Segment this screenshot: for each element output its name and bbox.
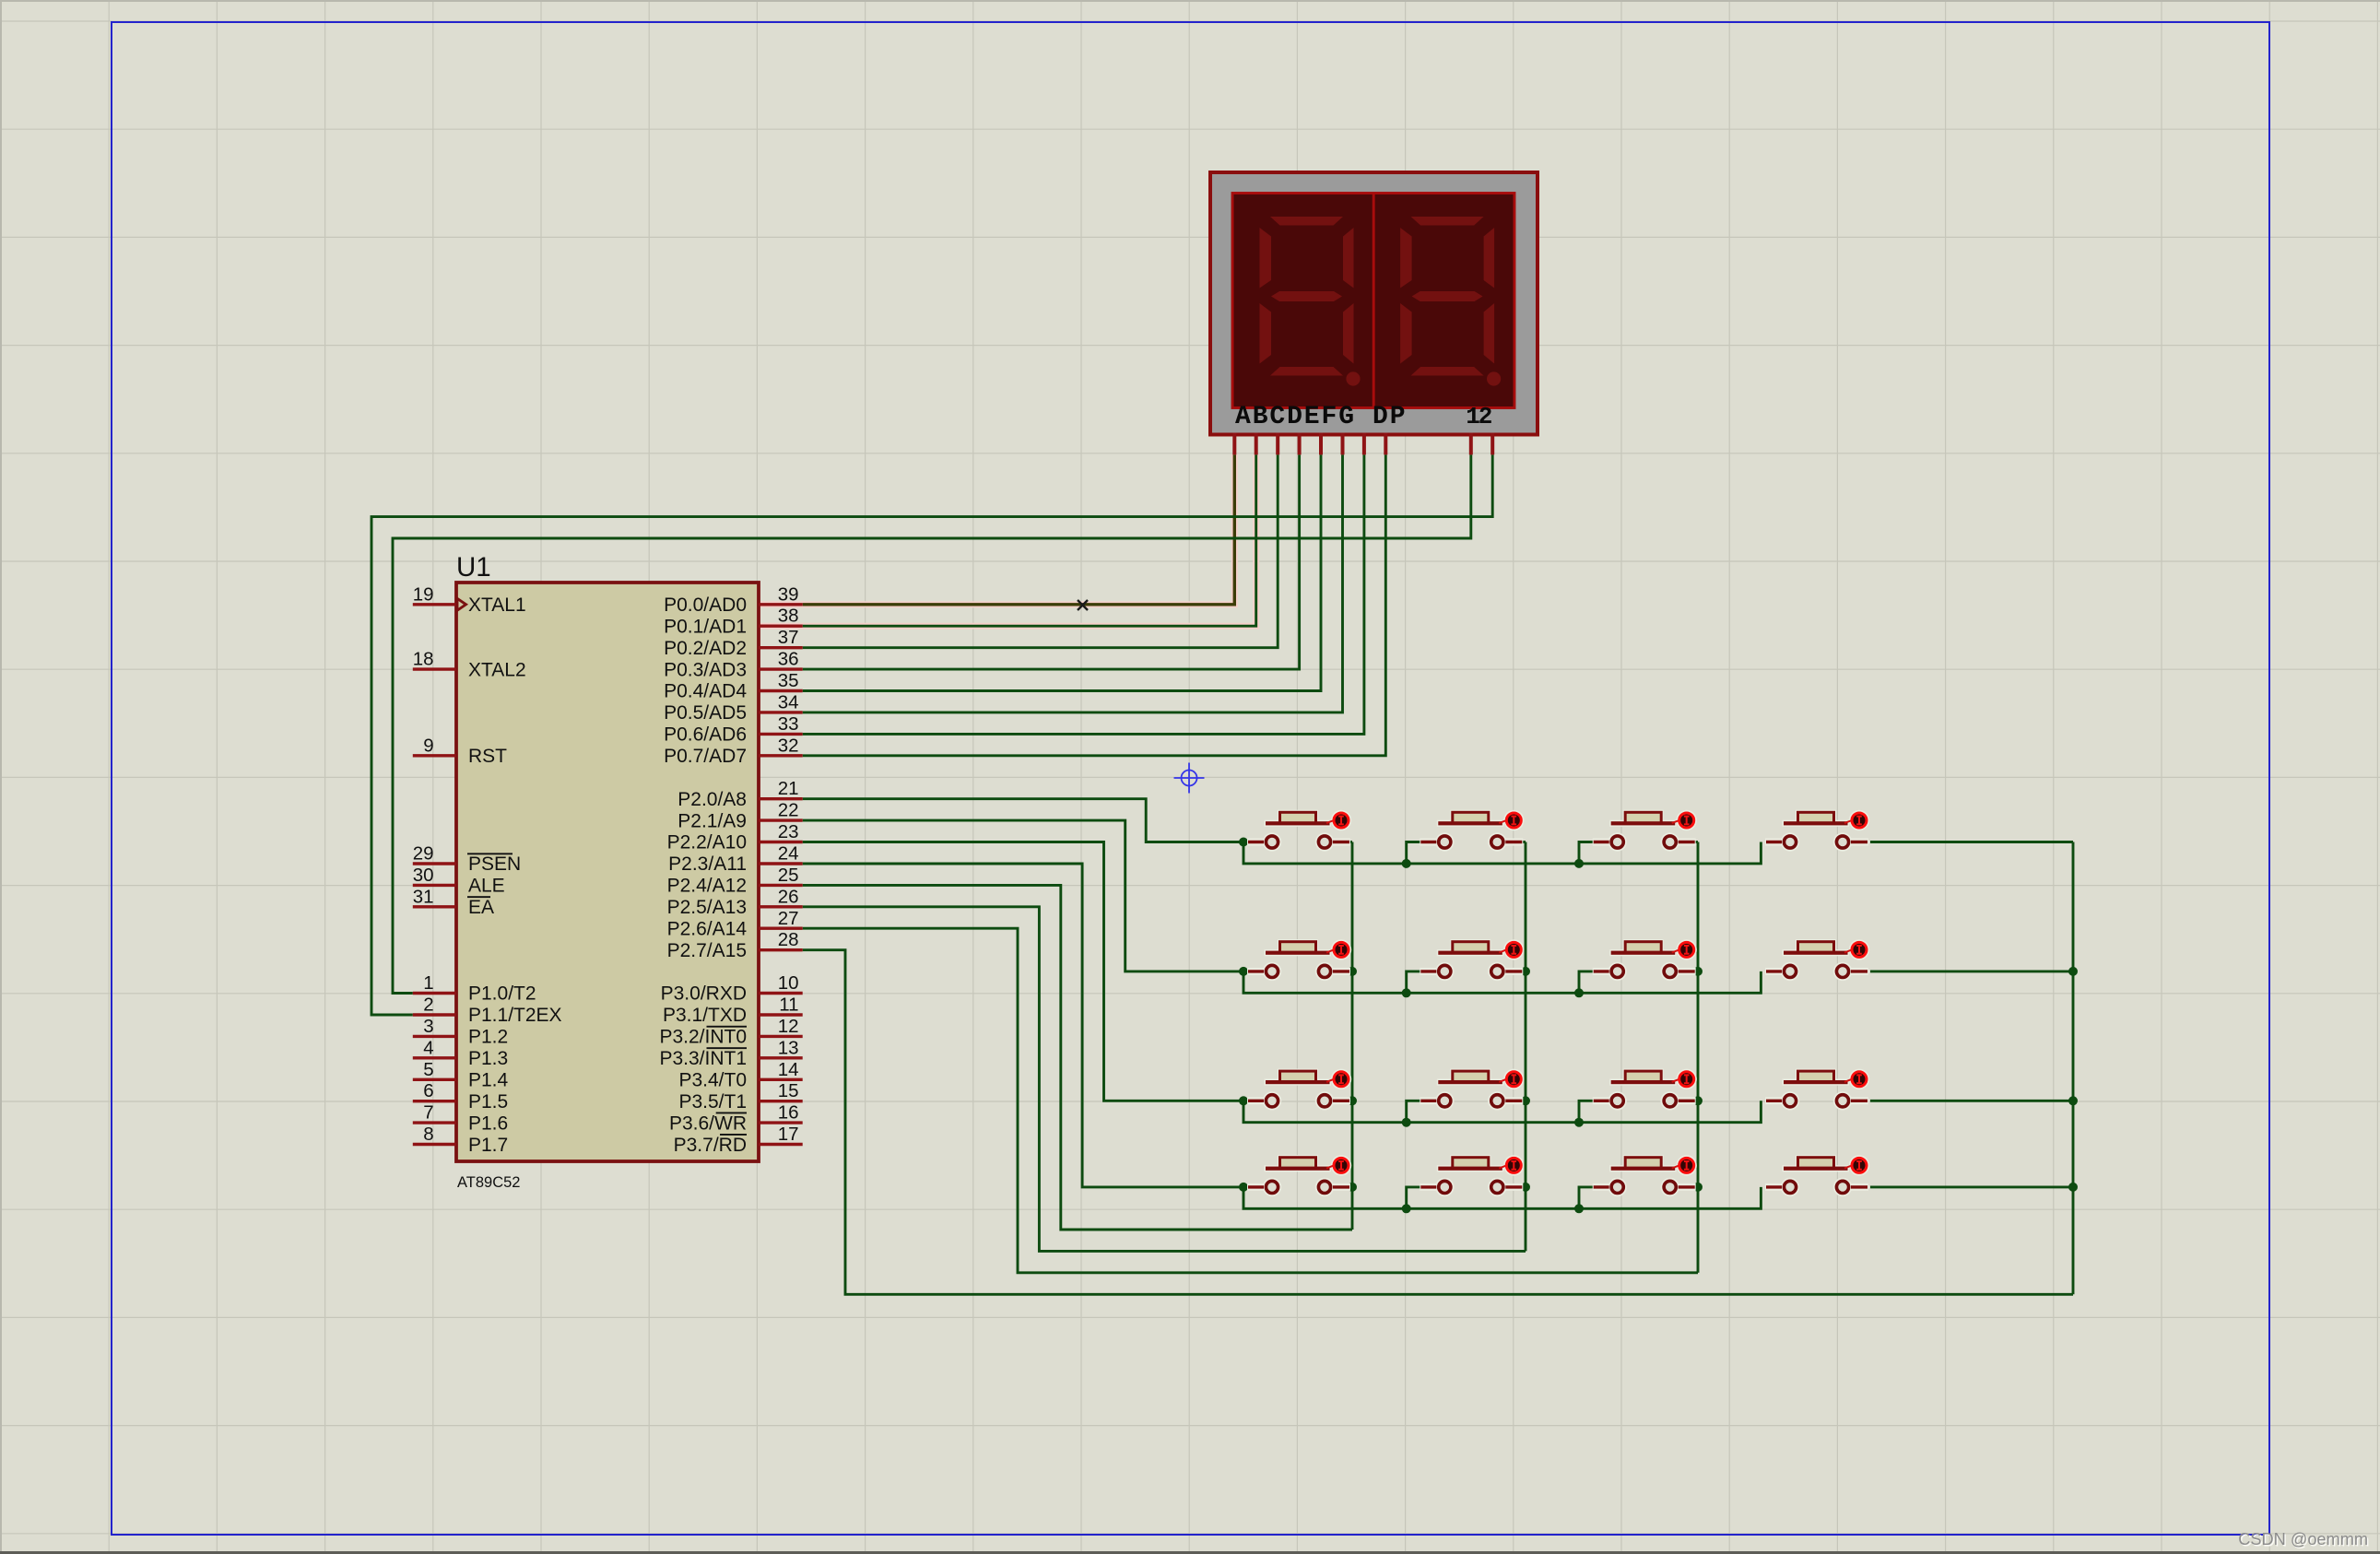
push button S12 (row 3 col 4) — [1765, 1069, 1869, 1111]
svg-text:P1.3: P1.3 — [468, 1048, 508, 1069]
svg-text:9: 9 — [423, 735, 433, 756]
svg-text:P0.4/AD4: P0.4/AD4 — [664, 681, 747, 702]
display pins A-G DP 1 2 — [1234, 433, 1492, 455]
wire riser row 4 col 3 — [1579, 1187, 1594, 1208]
svg-text:4: 4 — [423, 1037, 433, 1058]
pin 30 ALE — [413, 865, 505, 897]
svg-text:37: 37 — [778, 627, 799, 648]
svg-text:ABCDEFG: ABCDEFG — [1235, 403, 1356, 431]
svg-text:P3.0/RXD: P3.0/RXD — [661, 983, 747, 1005]
push button S6 (row 2 col 2) — [1420, 939, 1524, 981]
wire row 1 col 3 right link — [1694, 841, 1698, 843]
wire keypad row 1 bus — [1243, 842, 1761, 864]
push button S2 (row 1 col 2) — [1420, 810, 1524, 852]
svg-text:5: 5 — [423, 1059, 433, 1080]
svg-text:P0.2/AD2: P0.2/AD2 — [664, 638, 747, 659]
pin 21 P2.0/A8 — [677, 778, 802, 810]
svg-text:P3.1/TXD: P3.1/TXD — [663, 1005, 747, 1026]
push button S3 (row 1 col 3) — [1593, 810, 1697, 852]
pin 3 P1.2 — [413, 1016, 508, 1048]
svg-text:13: 13 — [778, 1037, 799, 1058]
svg-text:24: 24 — [778, 843, 799, 865]
pin 27 P2.6/A14 — [667, 908, 803, 940]
svg-text:26: 26 — [778, 886, 799, 907]
svg-text:2: 2 — [1479, 403, 1493, 430]
svg-text:P3.3/INT1: P3.3/INT1 — [659, 1048, 747, 1069]
svg-text:8: 8 — [423, 1124, 433, 1145]
pin 5 P1.4 — [413, 1059, 509, 1091]
push button S8 (row 2 col 4) — [1765, 939, 1869, 981]
svg-text:31: 31 — [413, 886, 434, 907]
pin 7 P1.6 — [413, 1102, 508, 1135]
svg-text:35: 35 — [778, 670, 799, 691]
svg-text:P3.2/INT0: P3.2/INT0 — [659, 1027, 747, 1048]
svg-text:P2.7/A15: P2.7/A15 — [667, 940, 747, 961]
pin 39 P0.0/AD0 — [664, 583, 803, 616]
svg-text:P1.4: P1.4 — [468, 1070, 509, 1091]
svg-text:P2.3/A11: P2.3/A11 — [668, 854, 747, 875]
wire row 3 col 3 right link — [1694, 1100, 1698, 1102]
wire row 2 col 4 extension — [1870, 970, 2073, 972]
svg-text:21: 21 — [778, 778, 799, 799]
pin 12 P3.2/INT0 — [659, 1016, 802, 1048]
svg-text:36: 36 — [778, 649, 799, 670]
svg-text:P1.0/T2: P1.0/T2 — [468, 983, 536, 1005]
wire row 4 col 3 right link — [1694, 1185, 1698, 1188]
svg-text:P3.6/WR: P3.6/WR — [669, 1113, 747, 1134]
mouse cursor x marker — [1078, 600, 1088, 610]
pin 14 P3.4/T0 — [678, 1059, 802, 1091]
wire P0.5 to segment F — [803, 454, 1343, 712]
wire row 2 col 1 right link — [1349, 970, 1352, 972]
svg-text:2: 2 — [423, 995, 433, 1016]
pin 25 P2.4/A12 — [667, 865, 803, 897]
svg-text:14: 14 — [778, 1059, 799, 1080]
pin 33 P0.6/AD6 — [664, 713, 803, 746]
wire P2.1 to keypad row 2 — [803, 820, 1243, 971]
svg-text:6: 6 — [423, 1080, 433, 1101]
svg-text:P0.6/AD6: P0.6/AD6 — [664, 724, 747, 746]
pin 19 XTAL1 — [413, 583, 526, 616]
svg-text:18: 18 — [413, 649, 434, 670]
pin 36 P0.3/AD3 — [664, 649, 803, 681]
svg-text:P3.7/RD: P3.7/RD — [674, 1135, 747, 1156]
wire keypad row 4 bus — [1243, 1187, 1761, 1208]
wire P0.4 to segment E — [803, 454, 1321, 690]
pin 2 P1.1/T2EX — [413, 995, 562, 1027]
wire riser row 2 col 3 — [1579, 971, 1594, 993]
svg-text:29: 29 — [413, 843, 434, 865]
svg-text:30: 30 — [413, 865, 434, 886]
wire row 1 col 4 extension — [1870, 841, 2073, 843]
svg-text:ALE: ALE — [468, 876, 505, 897]
pin 13 P3.3/INT1 — [659, 1037, 802, 1069]
wire row 3 col 4 extension — [1870, 1100, 2073, 1102]
wire row 3 col 1 right link — [1349, 1100, 1352, 1102]
push button S16 (row 4 col 4) — [1765, 1155, 1869, 1196]
pin 24 P2.3/A11 — [668, 843, 803, 876]
wire keypad column 2 vertical — [1525, 842, 1527, 1252]
pin 17 P3.7/RD — [674, 1124, 803, 1156]
svg-text:P0.5/AD5: P0.5/AD5 — [664, 702, 747, 724]
pin 22 P2.1/A9 — [677, 800, 802, 832]
svg-text:3: 3 — [423, 1016, 433, 1037]
wire P2.5 to keypad column 2 — [803, 907, 1526, 1252]
wire row 1 col 2 right link — [1521, 841, 1526, 843]
svg-text:P2.2/A10: P2.2/A10 — [667, 832, 747, 854]
wire row 4 col 2 right link — [1521, 1185, 1526, 1188]
7-segment display DS1 (2-digit, common) — [1210, 172, 1538, 435]
wire P1.0 to digit pin 1 — [393, 454, 1471, 993]
wire P1.1 to digit pin 2 — [371, 454, 1492, 1015]
push button S1 (row 1 col 1) — [1247, 810, 1351, 852]
pin 6 P1.5 — [413, 1080, 508, 1113]
wire keypad row 2 bus — [1243, 971, 1761, 993]
svg-text:27: 27 — [778, 908, 799, 929]
svg-text:38: 38 — [778, 606, 799, 627]
wire row 4 col 1 right link — [1349, 1185, 1352, 1188]
pin 29 PSEN — [413, 843, 521, 876]
pin 28 P2.7/A15 — [667, 929, 803, 961]
wire P2.3 to keypad row 4 — [803, 864, 1243, 1187]
wire P2.0 to keypad row 1 — [803, 799, 1243, 842]
svg-text:7: 7 — [423, 1102, 433, 1124]
svg-text:EA: EA — [468, 897, 494, 918]
svg-text:CSDN @oemmm: CSDN @oemmm — [2238, 1530, 2368, 1548]
wire row 2 col 2 right link — [1521, 970, 1526, 972]
wire junction dots — [1239, 838, 2078, 1214]
svg-text:RST: RST — [468, 746, 507, 767]
wire net P0.0-A highlight glow — [759, 454, 1256, 626]
pin 32 P0.7/AD7 — [664, 735, 803, 767]
pin 15 P3.5/T1 — [678, 1080, 802, 1113]
svg-text:DP: DP — [1373, 403, 1407, 431]
push button S4 (row 1 col 4) — [1765, 810, 1869, 852]
svg-text:16: 16 — [778, 1102, 799, 1124]
wire P0.7 to segment ? — [803, 454, 1386, 755]
svg-text:12: 12 — [778, 1016, 799, 1037]
wire row 4 col 4 extension — [1870, 1185, 2073, 1188]
wire row 3 col 2 right link — [1521, 1100, 1526, 1102]
svg-text:19: 19 — [413, 583, 434, 605]
wire riser row 4 col 2 — [1407, 1187, 1421, 1208]
svg-text:PSEN: PSEN — [468, 854, 521, 875]
pin 18 XTAL2 — [413, 649, 526, 681]
pin 38 P0.1/AD1 — [664, 606, 803, 638]
wire riser row 3 col 3 — [1579, 1101, 1594, 1122]
push button S7 (row 2 col 3) — [1593, 939, 1697, 981]
wire P0.0 to segment A (selected, olive) — [803, 454, 1235, 604]
svg-text:23: 23 — [778, 821, 799, 842]
wire keypad column 1 vertical — [1351, 842, 1354, 1230]
watermark CSDN @oemmm — [2238, 1530, 2369, 1550]
wire keypad column 3 vertical — [1697, 842, 1700, 1273]
svg-text:P2.5/A13: P2.5/A13 — [667, 897, 747, 918]
svg-text:XTAL1: XTAL1 — [468, 595, 526, 616]
svg-text:P2.0/A8: P2.0/A8 — [677, 789, 747, 810]
wire P0.2 to segment C — [803, 454, 1278, 647]
origin crosshair marker — [1174, 763, 1205, 794]
wire keypad column 4 vertical — [2072, 842, 2075, 1295]
pin 26 P2.5/A13 — [667, 886, 803, 918]
pin 16 P3.6/WR — [669, 1102, 803, 1135]
svg-text:P0.0/AD0: P0.0/AD0 — [664, 595, 747, 616]
wire P2.6 to keypad column 3 — [803, 928, 1698, 1273]
wire riser row 1 col 2 — [1407, 842, 1421, 864]
wire P0.1 to segment B — [803, 454, 1256, 626]
wire riser row 1 col 3 — [1579, 842, 1594, 864]
svg-text:AT89C52: AT89C52 — [457, 1174, 520, 1191]
pin 34 P0.5/AD5 — [664, 691, 803, 724]
svg-text:P0.7/AD7: P0.7/AD7 — [664, 746, 747, 767]
svg-text:34: 34 — [778, 691, 799, 712]
wire P2.2 to keypad row 3 — [803, 842, 1243, 1101]
svg-text:33: 33 — [778, 713, 799, 735]
wire row 1 col 1 right link — [1349, 841, 1352, 843]
svg-text:P1.6: P1.6 — [468, 1113, 508, 1134]
svg-text:P0.3/AD3: P0.3/AD3 — [664, 659, 747, 680]
svg-text:U1: U1 — [456, 552, 491, 583]
svg-text:P1.5: P1.5 — [468, 1091, 508, 1113]
wire P2.7 to keypad column 4 — [803, 950, 2073, 1295]
push button S15 (row 4 col 3) — [1593, 1155, 1697, 1196]
svg-text:32: 32 — [778, 735, 799, 756]
wire riser row 3 col 2 — [1407, 1101, 1421, 1122]
wire riser row 2 col 2 — [1407, 971, 1421, 993]
svg-text:22: 22 — [778, 800, 799, 821]
wire P2.4 to keypad column 1 — [803, 885, 1352, 1230]
push button S9 (row 3 col 1) — [1247, 1069, 1351, 1111]
pin 11 P3.1/TXD — [663, 995, 803, 1027]
svg-text:P3.5/T1: P3.5/T1 — [678, 1091, 747, 1113]
svg-text:39: 39 — [778, 583, 799, 605]
pin 1 P1.0/T2 — [413, 972, 536, 1005]
svg-text:28: 28 — [778, 929, 799, 950]
wire P0.3 to segment D — [803, 454, 1300, 669]
svg-text:25: 25 — [778, 865, 799, 886]
pin 23 P2.2/A10 — [667, 821, 803, 854]
svg-text:P1.2: P1.2 — [468, 1027, 508, 1048]
svg-text:P2.4/A12: P2.4/A12 — [667, 876, 747, 897]
svg-text:15: 15 — [778, 1080, 799, 1101]
svg-text:11: 11 — [779, 995, 798, 1016]
op-amp U1 body (AT89C52 microcontroller) — [456, 583, 759, 1161]
push button S13 (row 4 col 1) — [1247, 1155, 1351, 1196]
wire keypad row 3 bus — [1243, 1101, 1761, 1122]
push button S5 (row 2 col 1) — [1247, 939, 1351, 981]
svg-text:P2.6/A14: P2.6/A14 — [667, 919, 748, 940]
pin 31 EA — [413, 886, 494, 918]
pin 35 P0.4/AD4 — [664, 670, 803, 702]
push button S11 (row 3 col 3) — [1593, 1069, 1697, 1111]
svg-text:P1.1/T2EX: P1.1/T2EX — [468, 1005, 562, 1026]
svg-text:17: 17 — [778, 1124, 799, 1145]
push button S10 (row 3 col 2) — [1420, 1069, 1524, 1111]
svg-text:XTAL2: XTAL2 — [468, 659, 526, 680]
pin 8 P1.7 — [413, 1124, 508, 1156]
svg-text:10: 10 — [778, 972, 799, 994]
pin 9 RST — [413, 735, 507, 767]
wire row 2 col 3 right link — [1694, 970, 1698, 972]
wire P0.6 to segment G — [803, 454, 1364, 734]
push button S14 (row 4 col 2) — [1420, 1155, 1524, 1196]
svg-text:P1.7: P1.7 — [468, 1135, 508, 1156]
svg-text:1: 1 — [423, 972, 433, 994]
svg-text:P3.4/T0: P3.4/T0 — [678, 1070, 747, 1091]
svg-text:P2.1/A9: P2.1/A9 — [677, 810, 747, 831]
pin 4 P1.3 — [413, 1037, 508, 1069]
pin 37 P0.2/AD2 — [664, 627, 803, 659]
pin 10 P3.0/RXD — [661, 972, 803, 1005]
svg-text:P0.1/AD1: P0.1/AD1 — [664, 616, 747, 637]
